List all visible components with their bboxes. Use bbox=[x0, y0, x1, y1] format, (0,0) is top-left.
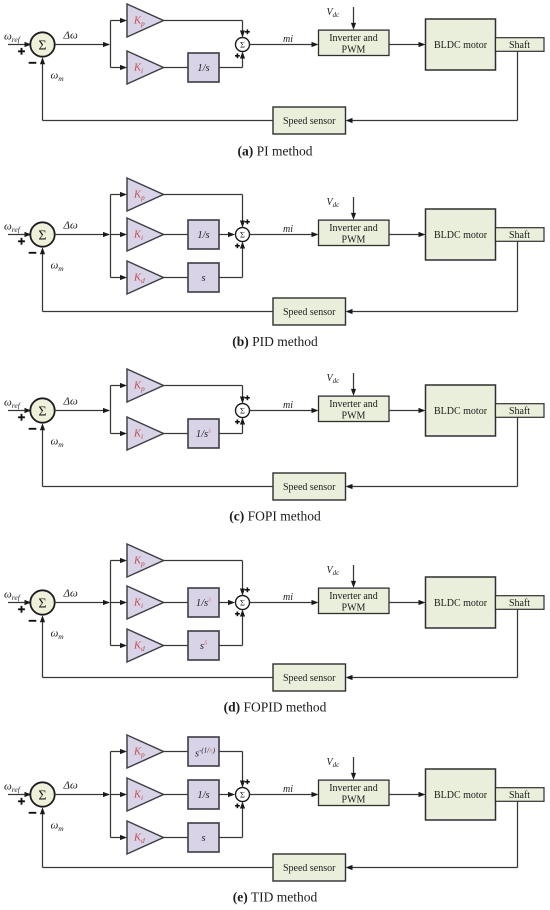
svg-text:Δω: Δω bbox=[63, 780, 78, 792]
summing junction S2 e bbox=[236, 788, 250, 802]
svg-text:ωref: ωref bbox=[4, 589, 21, 602]
plus sign at summer S2 bottom a bbox=[235, 55, 240, 57]
plus sign at summer input e bbox=[18, 800, 25, 802]
wire branch to gain Ki a bbox=[111, 67, 121, 69]
svg-text:mi: mi bbox=[283, 34, 293, 45]
svg-text:Shaft: Shaft bbox=[509, 598, 530, 609]
block 1/sl c bbox=[188, 419, 219, 448]
plus sign at summer S2 bottom e bbox=[235, 805, 240, 807]
diagram (c) FOPI method bbox=[4, 369, 544, 524]
summing junction S1 d bbox=[30, 590, 54, 614]
wire into summer S2 left d bbox=[219, 602, 229, 604]
wire omega_ref into summer e bbox=[8, 794, 31, 796]
wire inverter to BLDC motor a bbox=[389, 44, 419, 46]
block shaft c bbox=[496, 404, 545, 418]
svg-text:ωm: ωm bbox=[51, 260, 65, 273]
wire branch to gain Ki d bbox=[111, 602, 121, 604]
wire gain Ki to block e bbox=[164, 794, 189, 796]
plus sign at summer S2 bottom c bbox=[235, 421, 240, 423]
svg-text:Shaft: Shaft bbox=[509, 40, 530, 51]
gain Ki c bbox=[127, 417, 164, 450]
minus sign at summer feedback a bbox=[29, 62, 37, 64]
svg-text:BLDC motor: BLDC motor bbox=[434, 598, 488, 609]
wire feedback into speed sensor a bbox=[352, 120, 518, 122]
wire branch to gain Kp c bbox=[111, 385, 121, 387]
wire branch to gain Kd d bbox=[111, 645, 121, 647]
block inverter and PWM U1 a bbox=[319, 30, 390, 55]
block BLDC motor M1 a bbox=[426, 19, 496, 70]
wire mi from summer S2 to inverter d bbox=[250, 602, 313, 604]
wire shaft down to feedback d bbox=[517, 609, 519, 677]
block shaft e bbox=[496, 788, 545, 802]
wire into summer S2 left b bbox=[219, 234, 229, 236]
wire Kp path to summer S2 top c bbox=[164, 385, 243, 387]
summing junction S2 c bbox=[236, 404, 250, 418]
svg-text:Δω: Δω bbox=[63, 30, 78, 42]
wire into summer S2 left e bbox=[219, 794, 229, 796]
wire inverter to BLDC motor d bbox=[389, 602, 419, 604]
block sn e bbox=[188, 737, 219, 766]
svg-text:mi: mi bbox=[283, 592, 293, 603]
wire branch vertical c bbox=[110, 386, 112, 434]
svg-text:ωref: ωref bbox=[4, 31, 21, 44]
svg-text:ωm: ωm bbox=[51, 70, 65, 83]
block BLDC motor M1 c bbox=[426, 385, 496, 436]
block speed sensor a bbox=[273, 107, 346, 134]
svg-text:PWM: PWM bbox=[342, 411, 366, 422]
svg-text:Σ: Σ bbox=[240, 789, 245, 799]
block inverter and PWM U1 c bbox=[319, 396, 390, 421]
svg-text:Inverter and: Inverter and bbox=[329, 783, 378, 794]
gain Ki e bbox=[127, 778, 164, 811]
summing junction S1 b bbox=[30, 222, 54, 246]
block s b bbox=[188, 263, 219, 292]
block sd d bbox=[188, 631, 219, 660]
svg-text:Speed sensor: Speed sensor bbox=[283, 863, 336, 874]
svg-text:Δω: Δω bbox=[63, 220, 78, 232]
wire mi from summer S2 to inverter e bbox=[250, 794, 313, 796]
svg-text:Σ: Σ bbox=[38, 38, 46, 53]
wire inverter to BLDC motor c bbox=[389, 410, 419, 412]
wire gain Ki to block a bbox=[164, 67, 189, 69]
wire mi from summer S2 to inverter b bbox=[250, 234, 313, 236]
svg-text:Vdc: Vdc bbox=[327, 373, 341, 385]
block BLDC motor M1 e bbox=[426, 769, 496, 820]
wire Kp path to summer S2 top a bbox=[164, 20, 243, 22]
wire speed sensor to summer S1 e bbox=[43, 867, 274, 869]
svg-text:Δω: Δω bbox=[63, 588, 78, 600]
svg-text:Σ: Σ bbox=[240, 405, 245, 415]
svg-text:Δω: Δω bbox=[63, 396, 78, 408]
wire branch vertical d bbox=[110, 561, 112, 646]
plus sign at summer S2 top d bbox=[245, 589, 250, 591]
wire shaft down to feedback e bbox=[517, 801, 519, 867]
minus sign at summer feedback d bbox=[29, 620, 37, 622]
svg-text:PWM: PWM bbox=[342, 235, 366, 246]
wire branch to gain Ki e bbox=[111, 794, 121, 796]
block inverter and PWM U1 d bbox=[319, 588, 390, 613]
block BLDC motor M1 d bbox=[426, 577, 496, 628]
diagram (a) PI method bbox=[4, 4, 544, 159]
svg-text:Shaft: Shaft bbox=[509, 790, 530, 801]
svg-text:Σ: Σ bbox=[38, 404, 46, 419]
wire branch to gain Kp d bbox=[111, 560, 121, 562]
wire delta-omega from summer to branch e bbox=[55, 794, 109, 796]
svg-text:Σ: Σ bbox=[240, 597, 245, 607]
wire Kp path to summer S2 top d bbox=[164, 560, 243, 562]
wire Vdc into inverter b bbox=[353, 197, 355, 214]
wire mi from summer S2 to inverter c bbox=[250, 410, 313, 412]
svg-text:(d) FOPID method: (d) FOPID method bbox=[224, 700, 327, 715]
block BLDC motor M1 b bbox=[426, 209, 496, 260]
wire feedback into speed sensor b bbox=[352, 311, 518, 313]
wire feedback into speed sensor d bbox=[352, 677, 518, 679]
wire gain Kp to block e bbox=[164, 751, 189, 753]
svg-text:1/s: 1/s bbox=[197, 63, 209, 74]
plus sign at summer S2 bottom b bbox=[235, 245, 240, 247]
svg-text:BLDC motor: BLDC motor bbox=[434, 40, 488, 51]
gain Ki d bbox=[127, 586, 164, 619]
summing junction S1 c bbox=[30, 398, 54, 422]
wire inverter to BLDC motor e bbox=[389, 794, 419, 796]
block 1/s b bbox=[188, 220, 219, 249]
svg-text:Inverter and: Inverter and bbox=[329, 591, 378, 602]
wire gain Ki to block d bbox=[164, 602, 189, 604]
diagram (d) FOPID method bbox=[4, 544, 544, 715]
plus sign at summer input d bbox=[18, 608, 25, 610]
svg-text:mi: mi bbox=[283, 400, 293, 411]
block 1/sl d bbox=[188, 588, 219, 617]
plus sign at summer input c bbox=[18, 416, 25, 418]
gain Kp c bbox=[127, 369, 164, 402]
wire Kd path to summer S2 bottom d bbox=[219, 645, 243, 647]
svg-text:Speed sensor: Speed sensor bbox=[283, 307, 336, 318]
summing junction S2 d bbox=[236, 596, 250, 610]
gain Kp a bbox=[127, 4, 164, 37]
wire branch to gain Kp e bbox=[111, 751, 121, 753]
gain Ki a bbox=[127, 51, 164, 84]
wire Ki path to summer S2 bottom c bbox=[219, 433, 243, 435]
plus sign at summer S2 bottom d bbox=[235, 613, 240, 615]
gain Kp e bbox=[127, 735, 164, 768]
wire speed sensor to summer S1 c bbox=[43, 486, 274, 488]
wire feedback into speed sensor c bbox=[352, 486, 518, 488]
block speed sensor d bbox=[273, 664, 346, 691]
block 1/s e bbox=[188, 780, 219, 809]
wire gain Kd to block b bbox=[164, 277, 189, 279]
svg-text:BLDC motor: BLDC motor bbox=[434, 790, 488, 801]
wire gain Ki to block c bbox=[164, 433, 189, 435]
diagram (e) TID method bbox=[4, 735, 544, 905]
svg-text:ωm: ωm bbox=[51, 628, 65, 641]
wire shaft down to feedback c bbox=[517, 417, 519, 486]
block s e bbox=[188, 823, 219, 852]
svg-text:ωm: ωm bbox=[51, 436, 65, 449]
svg-text:(a) PI method: (a) PI method bbox=[238, 144, 313, 159]
svg-text:Shaft: Shaft bbox=[509, 230, 530, 241]
svg-text:ωref: ωref bbox=[4, 781, 21, 794]
wire Vdc into inverter c bbox=[353, 373, 355, 390]
svg-text:Σ: Σ bbox=[38, 228, 46, 243]
svg-text:BLDC motor: BLDC motor bbox=[434, 406, 488, 417]
wire branch to gain Ki c bbox=[111, 433, 121, 435]
wire Kd path to summer S2 bottom e bbox=[219, 837, 243, 839]
summing junction S1 a bbox=[30, 32, 54, 56]
block speed sensor c bbox=[273, 473, 346, 500]
gain Kd d bbox=[127, 629, 164, 662]
svg-text:Shaft: Shaft bbox=[509, 406, 530, 417]
wire Kd path to summer S2 bottom b bbox=[219, 277, 243, 279]
svg-text:(b) PID method: (b) PID method bbox=[232, 334, 318, 349]
svg-text:Σ: Σ bbox=[38, 788, 46, 803]
wire Kp path to summer S2 top b bbox=[164, 194, 243, 196]
block shaft d bbox=[496, 596, 545, 610]
svg-text:ωm: ωm bbox=[51, 820, 65, 833]
wire speed sensor to summer S1 d bbox=[43, 677, 274, 679]
svg-text:Vdc: Vdc bbox=[327, 565, 341, 577]
svg-text:Speed sensor: Speed sensor bbox=[283, 482, 336, 493]
svg-text:PWM: PWM bbox=[342, 795, 366, 806]
plus sign at summer S2 top c bbox=[245, 397, 250, 399]
wire speed sensor to summer S1 a bbox=[43, 120, 274, 122]
wire Kp path to summer S2 top e bbox=[219, 751, 243, 753]
plus sign at summer S2 top b bbox=[245, 221, 250, 223]
wire Vdc into inverter a bbox=[353, 7, 355, 24]
wire gain Ki to block b bbox=[164, 234, 189, 236]
block shaft a bbox=[496, 38, 545, 52]
wire branch to gain Kp b bbox=[111, 194, 121, 196]
wire branch to gain Kd b bbox=[111, 277, 121, 279]
wire omega_ref into summer c bbox=[8, 410, 31, 412]
svg-text:Σ: Σ bbox=[240, 39, 245, 49]
block shaft b bbox=[496, 228, 545, 242]
diagram (b) PID method bbox=[4, 178, 544, 349]
svg-text:s: s bbox=[201, 273, 205, 284]
svg-text:Σ: Σ bbox=[38, 596, 46, 611]
block inverter and PWM U1 b bbox=[319, 220, 390, 245]
wire branch vertical a bbox=[110, 21, 112, 68]
plus sign at summer S2 top e bbox=[245, 781, 250, 783]
gain Kd e bbox=[127, 821, 164, 854]
svg-text:(c) FOPI method: (c) FOPI method bbox=[229, 509, 321, 524]
svg-text:(e) TID method: (e) TID method bbox=[233, 890, 318, 905]
wire inverter to BLDC motor b bbox=[389, 234, 419, 236]
wire branch to gain Kd e bbox=[111, 837, 121, 839]
wire shaft down to feedback b bbox=[517, 241, 519, 311]
wire shaft down to feedback a bbox=[517, 51, 519, 120]
wire gain Kd to block e bbox=[164, 837, 189, 839]
svg-text:mi: mi bbox=[283, 224, 293, 235]
summing junction S1 e bbox=[30, 782, 54, 806]
svg-text:Speed sensor: Speed sensor bbox=[283, 673, 336, 684]
svg-text:BLDC motor: BLDC motor bbox=[434, 230, 488, 241]
wire delta-omega from summer to branch a bbox=[55, 44, 109, 46]
svg-text:ωref: ωref bbox=[4, 397, 21, 410]
wire branch to gain Kp a bbox=[111, 20, 121, 22]
svg-text:Σ: Σ bbox=[240, 229, 245, 239]
block inverter and PWM U1 e bbox=[319, 780, 390, 805]
svg-text:1/s: 1/s bbox=[197, 230, 209, 241]
wire Ki path to summer S2 bottom a bbox=[219, 67, 243, 69]
svg-text:Inverter and: Inverter and bbox=[329, 399, 378, 410]
wire delta-omega from summer to branch d bbox=[55, 602, 109, 604]
wire branch vertical b bbox=[110, 195, 112, 278]
svg-text:Speed sensor: Speed sensor bbox=[283, 116, 336, 127]
wire speed sensor to summer S1 b bbox=[43, 311, 274, 313]
summing junction S2 b bbox=[236, 228, 250, 242]
wire gain Kd to block d bbox=[164, 645, 189, 647]
block speed sensor e bbox=[273, 854, 346, 881]
svg-text:mi: mi bbox=[283, 784, 293, 795]
wire branch vertical e bbox=[110, 752, 112, 838]
gain Kp d bbox=[127, 544, 164, 577]
svg-text:Vdc: Vdc bbox=[327, 197, 341, 209]
svg-text:Inverter and: Inverter and bbox=[329, 223, 378, 234]
wire feedback into speed sensor e bbox=[352, 867, 518, 869]
wire Vdc into inverter e bbox=[353, 757, 355, 774]
svg-text:PWM: PWM bbox=[342, 603, 366, 614]
wire mi from summer S2 to inverter a bbox=[250, 44, 313, 46]
svg-text:Vdc: Vdc bbox=[327, 7, 341, 19]
block speed sensor b bbox=[273, 298, 346, 325]
plus sign at summer S2 top a bbox=[245, 31, 250, 33]
svg-text:Vdc: Vdc bbox=[327, 757, 341, 769]
wire delta-omega from summer to branch c bbox=[55, 410, 109, 412]
minus sign at summer feedback c bbox=[29, 428, 37, 430]
wire Vdc into inverter d bbox=[353, 565, 355, 582]
wire delta-omega from summer to branch b bbox=[55, 234, 109, 236]
wire branch to gain Ki b bbox=[111, 234, 121, 236]
gain Ki b bbox=[127, 218, 164, 251]
svg-text:1/s: 1/s bbox=[197, 790, 209, 801]
gain Kp b bbox=[127, 178, 164, 211]
svg-text:ωref: ωref bbox=[4, 221, 21, 234]
svg-text:PWM: PWM bbox=[342, 45, 366, 56]
block 1/s a bbox=[188, 53, 219, 82]
wire omega_ref into summer b bbox=[8, 234, 31, 236]
wire omega_ref into summer d bbox=[8, 602, 31, 604]
svg-text:Inverter and: Inverter and bbox=[329, 33, 378, 44]
minus sign at summer feedback b bbox=[29, 252, 37, 254]
gain Kd b bbox=[127, 261, 164, 294]
wire omega_ref into summer a bbox=[8, 44, 31, 46]
svg-text:s: s bbox=[201, 833, 205, 844]
plus sign at summer input b bbox=[18, 240, 25, 242]
minus sign at summer feedback e bbox=[29, 812, 37, 814]
plus sign at summer input a bbox=[18, 50, 25, 52]
summing junction S2 a bbox=[236, 38, 250, 52]
